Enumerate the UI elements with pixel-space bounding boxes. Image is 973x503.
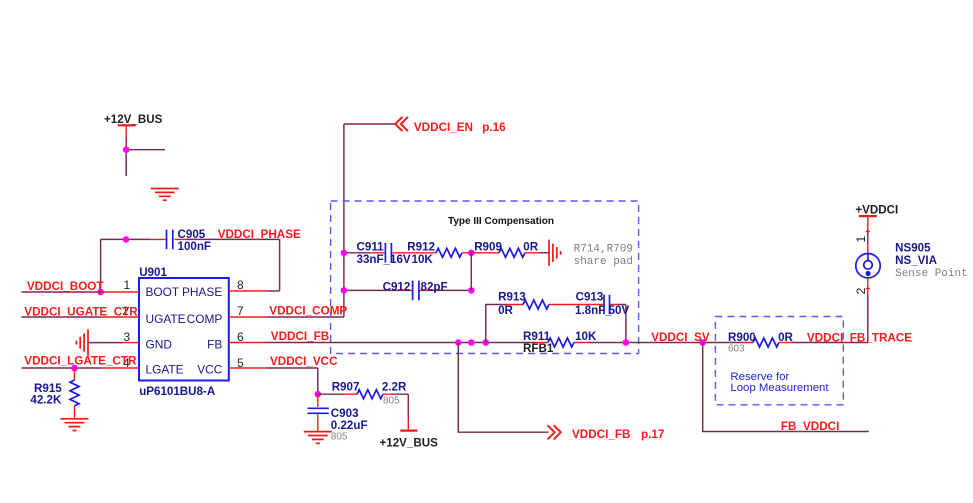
svg-text:share pad: share pad — [574, 256, 633, 268]
dashed box Type III Compensation — [331, 201, 639, 354]
svg-text:C911: C911 — [357, 241, 385, 254]
wire R913/C913 parallel branch — [486, 305, 626, 343]
wire VDDCI_COMP (pin 7) — [229, 124, 344, 317]
node R912/R909 junction — [468, 250, 475, 257]
note R714,R709 share pad — [574, 244, 633, 269]
resistor R913 — [523, 300, 549, 309]
svg-text:R912: R912 — [407, 241, 435, 254]
svg-text:2: 2 — [854, 287, 868, 294]
svg-text:805: 805 — [331, 432, 348, 443]
svg-text:0R: 0R — [778, 331, 793, 344]
node FB to p.17 branch — [455, 339, 462, 346]
ground at pin 3 (rotated left) — [76, 329, 88, 355]
svg-text:VCC: VCC — [197, 362, 223, 376]
svg-text:C913: C913 — [576, 291, 604, 304]
svg-text:BOOT: BOOT — [146, 285, 180, 299]
svg-text:UGATE: UGATE — [146, 312, 186, 326]
svg-text:7: 7 — [237, 304, 244, 318]
ground below R915 — [61, 419, 89, 431]
svg-text:R909: R909 — [474, 241, 502, 254]
node C911 junction — [341, 250, 348, 257]
node C912 right junction — [468, 287, 475, 294]
capacitor C911 — [385, 243, 391, 263]
wire comp vertical to FB — [470, 253, 472, 291]
off-page connector VDDCI_EN — [395, 117, 407, 130]
wire C912 branch — [344, 289, 471, 291]
svg-text:FB: FB — [207, 337, 222, 351]
wire VDDCI_EN — [344, 123, 396, 125]
svg-text:VDDCI_LGATE_CTR: VDDCI_LGATE_CTR — [24, 355, 137, 368]
svg-text:GND: GND — [146, 337, 173, 351]
capacitor C913 — [604, 295, 610, 315]
svg-text:+VDDCI: +VDDCI — [855, 204, 898, 217]
svg-text:R913: R913 — [498, 291, 526, 304]
wire VDDCI_PHASE net (C905 top loop) — [101, 239, 280, 292]
wire VDDCI_FB (pin 6 feedback line) — [229, 342, 869, 344]
svg-text:VDDCI_VCC: VDDCI_VCC — [270, 355, 338, 368]
node FB R913 branch junction — [483, 339, 490, 346]
svg-text:603: 603 — [728, 344, 745, 355]
svg-text:R907: R907 — [332, 381, 360, 394]
svg-text:uP6101BU8-A: uP6101BU8-A — [139, 385, 216, 398]
wire +VDDCI to NS905 pin 1 — [866, 229, 870, 261]
resistor R915 — [70, 368, 79, 419]
svg-text:1: 1 — [854, 236, 868, 243]
svg-text:p.17: p.17 — [641, 428, 664, 441]
svg-text:VDDCI_UGATE_CTR: VDDCI_UGATE_CTR — [24, 306, 138, 319]
svg-text:82pF: 82pF — [421, 280, 448, 293]
svg-text:NS_VIA: NS_VIA — [895, 254, 938, 267]
wire FB_VDDCI branch — [703, 343, 869, 432]
node R915 junction — [71, 365, 78, 372]
svg-text:Loop Measurement: Loop Measurement — [730, 382, 829, 394]
off-page connector VDDCI_FB p.17 — [548, 426, 561, 439]
svg-text:2.2R: 2.2R — [382, 381, 407, 394]
power +12V_BUS (bottom) — [400, 419, 417, 431]
capacitor C912 — [413, 281, 419, 301]
svg-text:NS905: NS905 — [895, 241, 931, 254]
wire VDDCI_BOOT (pin 1) — [22, 291, 140, 293]
svg-text:50V: 50V — [609, 304, 630, 317]
resistor R900 — [753, 338, 779, 347]
node junction on +12V_BUS stub — [123, 146, 130, 153]
svg-text:VDDCI_PHASE: VDDCI_PHASE — [218, 228, 301, 241]
wire R907 row — [318, 394, 409, 419]
power +VDDCI — [859, 216, 877, 229]
capacitor C903 — [308, 394, 329, 431]
svg-text:VDDCI_FB_TRACE: VDDCI_FB_TRACE — [807, 332, 912, 345]
IC U901 body — [139, 278, 229, 381]
svg-text:805: 805 — [383, 395, 400, 406]
ground (floating, below +12V_BUS stub) — [151, 189, 179, 201]
svg-text:COMP: COMP — [187, 312, 223, 326]
svg-text:1.8nF_: 1.8nF_ — [575, 304, 612, 317]
svg-text:p.16: p.16 — [482, 121, 506, 134]
wire NS905 pin 2 to FB trace — [866, 278, 870, 343]
wire pin 8 to PHASE loop — [229, 290, 280, 292]
svg-text:U901: U901 — [139, 266, 167, 279]
svg-text:+12V_BUS: +12V_BUS — [104, 113, 163, 126]
node VCC / R907 / C903 junction — [315, 391, 322, 398]
svg-text:100nF: 100nF — [178, 240, 212, 253]
wire pin 3 to ground — [88, 342, 139, 344]
dashed box Reserve for Loop Measurement — [715, 317, 843, 405]
svg-text:VDDCI_EN: VDDCI_EN — [414, 121, 473, 134]
svg-text:VDDCI_FB: VDDCI_FB — [271, 330, 329, 343]
resistor R912 — [436, 248, 471, 257]
svg-text:PHASE: PHASE — [182, 285, 222, 299]
svg-text:VDDCI_FB: VDDCI_FB — [572, 428, 630, 441]
svg-text:42.2K: 42.2K — [30, 394, 62, 407]
svg-text:Sense Point: Sense Point — [895, 268, 968, 280]
wire VDDCI_LGATE_CTR (pin 4) — [22, 367, 140, 369]
svg-text:+12V_BUS: +12V_BUS — [380, 437, 439, 450]
svg-text:0.22uF: 0.22uF — [331, 419, 368, 432]
svg-text:33nF_16V: 33nF_16V — [357, 253, 411, 266]
svg-text:Reserve for: Reserve for — [730, 371, 789, 383]
svg-text:FB_VDDCI: FB_VDDCI — [781, 420, 839, 433]
svg-text:10K: 10K — [575, 330, 597, 343]
svg-text:8: 8 — [237, 278, 244, 292]
svg-text:0R: 0R — [523, 241, 538, 254]
via NS905 symbol — [856, 254, 880, 278]
svg-text:10K: 10K — [412, 253, 434, 266]
resistor R907 — [357, 390, 383, 399]
capacitor C905 — [167, 230, 173, 250]
node C905 left junction — [123, 236, 130, 243]
node VDDCI_SV junction — [699, 339, 706, 346]
svg-text:1: 1 — [123, 278, 130, 292]
node VDDCI_BOOT junction — [97, 289, 104, 296]
svg-text:VDDCI_BOOT: VDDCI_BOOT — [27, 280, 104, 293]
svg-text:R714,R709: R714,R709 — [574, 244, 633, 256]
ground at R909 (rotated right) — [549, 240, 561, 266]
node FB comp junction — [468, 339, 475, 346]
node FB right junction — [623, 339, 630, 346]
ground below C903 — [304, 432, 332, 444]
svg-text:LGATE: LGATE — [146, 362, 184, 376]
node C912 left junction — [341, 287, 348, 294]
svg-text:R900: R900 — [728, 331, 756, 344]
power +12V_BUS (top) — [118, 125, 136, 137]
svg-text:VDDCI_COMP: VDDCI_COMP — [269, 305, 347, 318]
resistor R911 — [548, 338, 574, 347]
wire VDDCI_VCC (pin 5) — [229, 368, 318, 394]
svg-text:Type III Compensation: Type III Compensation — [448, 216, 554, 227]
svg-text:RFB1: RFB1 — [523, 342, 554, 355]
svg-text:0R: 0R — [498, 304, 513, 317]
wire to VDDCI_FB p.17 — [458, 343, 548, 433]
wire C911 branch — [344, 252, 436, 254]
resistor R909 — [471, 248, 549, 257]
wire stub from +12V_BUS — [126, 138, 165, 177]
svg-text:3: 3 — [123, 330, 130, 344]
svg-text:C912: C912 — [383, 280, 411, 293]
wire VDDCI_UGATE_CTR (pin 2) — [22, 316, 140, 318]
